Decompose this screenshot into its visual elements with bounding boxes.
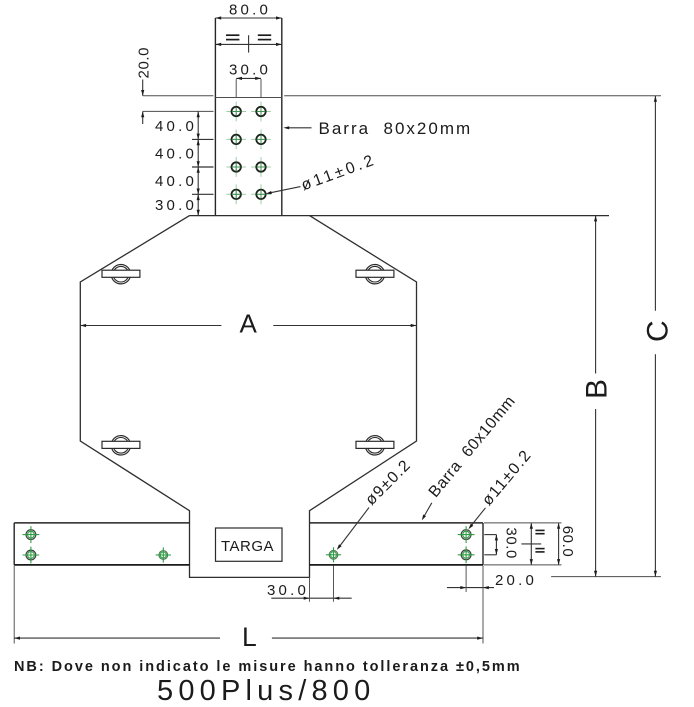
clamp feature bottom-left xyxy=(102,436,140,455)
bottom bar left edge xyxy=(13,523,15,565)
equals symbol upper xyxy=(535,530,544,533)
extension line hole column 1 xyxy=(235,79,237,98)
svg-text:30.0: 30.0 xyxy=(267,582,309,599)
svg-text:TARGA: TARGA xyxy=(221,538,274,555)
plate top edge line xyxy=(143,95,214,97)
bottom bar right edge xyxy=(482,523,484,565)
svg-text:L: L xyxy=(242,622,257,652)
dimension 80.0 line xyxy=(215,17,281,19)
bottom bar top edge xyxy=(14,522,189,524)
leader diameter 11 top xyxy=(270,187,301,193)
equals symbol lower xyxy=(535,549,544,552)
svg-text:20.0: 20.0 xyxy=(495,572,537,589)
equal-spacing dimension right bar xyxy=(530,523,532,565)
leader Barra 60x10mm xyxy=(425,503,432,516)
hole B5 bottom bar right xyxy=(458,526,475,543)
svg-text:30.0: 30.0 xyxy=(229,62,271,79)
extension line hole column diameter9 xyxy=(333,566,335,602)
hole H1 top bar xyxy=(226,102,246,122)
hole B2 bottom bar left xyxy=(23,547,40,564)
extension line bottom (plate bottom to B and C) xyxy=(551,576,661,578)
svg-text:40.0: 40.0 xyxy=(155,146,197,163)
hole H5 top bar xyxy=(226,157,246,177)
svg-text:C: C xyxy=(641,320,674,342)
hole B4 (diameter 9) bottom bar right xyxy=(326,547,341,562)
octagon body outline xyxy=(80,216,416,578)
hole B3 (diameter 9) bottom bar left xyxy=(156,547,171,562)
extension line hole row 3 xyxy=(192,166,214,168)
equals symbol left xyxy=(226,35,239,39)
leader Barra 80x20mm xyxy=(289,127,312,129)
bottom bar bottom edge xyxy=(14,564,189,566)
svg-text:30.0: 30.0 xyxy=(503,527,520,559)
svg-text:Barra 80x20mm: Barra 80x20mm xyxy=(319,119,473,138)
hole H6 top bar xyxy=(251,157,271,177)
top bar (Barra 80x20mm) left edge xyxy=(214,18,216,216)
equals symbol right xyxy=(258,35,271,39)
extension line hole column 2 xyxy=(260,79,262,98)
svg-text:A: A xyxy=(240,309,258,339)
hole H8 top bar xyxy=(251,184,271,204)
clamp feature bottom-right xyxy=(356,436,394,455)
top bar bottom contour on plate xyxy=(215,97,283,99)
svg-text:40.0: 40.0 xyxy=(155,118,197,135)
dimension A line xyxy=(80,325,221,327)
clamp feature top-left xyxy=(102,265,140,284)
extension line plate right edge xyxy=(309,577,311,601)
extension line hole column right xyxy=(465,566,467,593)
dimension 60.0 (bar width) xyxy=(558,523,560,565)
leader diameter 9 xyxy=(340,508,369,547)
dimension 20.0 bottom xyxy=(447,587,494,589)
svg-text:20.0: 20.0 xyxy=(136,47,153,79)
equal-spacing dimension line (= + =) xyxy=(215,35,281,52)
hole H4 top bar xyxy=(251,130,271,150)
svg-text:40.0: 40.0 xyxy=(155,173,197,190)
svg-text:80.0: 80.0 xyxy=(229,2,271,19)
svg-text:30.0: 30.0 xyxy=(155,197,197,214)
extension lines 60.0 xyxy=(484,522,562,524)
dimension 30.0 bottom (plate edge to hole) xyxy=(271,597,351,599)
octagon top edge and B extension xyxy=(190,215,610,217)
extension line bar right edge to L xyxy=(482,566,484,644)
hole B6 bottom bar right xyxy=(458,546,475,563)
extension line bar left edge to L xyxy=(13,566,15,644)
hole H7 top bar xyxy=(226,184,246,204)
svg-text:60.0: 60.0 xyxy=(559,526,576,558)
left chained dimension line 40/40/40/30 xyxy=(197,111,199,215)
extension line hole row 4 xyxy=(192,193,214,195)
hole H2 top bar xyxy=(251,102,271,122)
extension line hole row 1 xyxy=(143,110,214,112)
dimension L line xyxy=(14,637,220,639)
dimension 30.0 line xyxy=(236,77,261,79)
leader diameter 11 bottom xyxy=(471,508,485,526)
dimension 30.0 right vertical (holes) xyxy=(484,534,496,536)
svg-text:B: B xyxy=(581,379,614,399)
dimension B line xyxy=(595,216,597,374)
TARGA box xyxy=(216,528,283,561)
top bar right edge xyxy=(281,18,283,216)
clamp feature top-right xyxy=(356,265,394,284)
svg-text:500Plus/800: 500Plus/800 xyxy=(157,675,375,707)
svg-text:NB: Dove non indicato le misur: NB: Dove non indicato le misure hanno to… xyxy=(14,659,522,675)
hole B1 bottom bar left xyxy=(23,526,40,543)
hole H3 top bar xyxy=(226,130,246,150)
dimension C line xyxy=(654,96,656,311)
extension line hole row 2 xyxy=(192,138,214,140)
dimension 20.0 arrows xyxy=(142,80,144,96)
